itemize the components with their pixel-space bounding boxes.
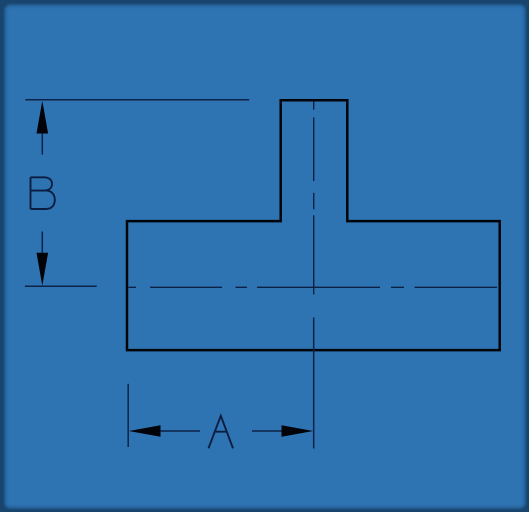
- dimension B top extension line: [25, 99, 249, 101]
- label B: [31, 177, 55, 209]
- dimension A right extension line (from centerline): [313, 318, 315, 449]
- vertical centerline (dash-dot): [313, 101, 315, 294]
- tee fitting outline: [127, 100, 500, 350]
- horizontal centerline (dash-dot): [129, 286, 498, 288]
- dimension B line (vertical, broken for label): [41, 133, 43, 253]
- dimension B arrowhead up: [37, 101, 49, 134]
- dimension B arrowhead down: [37, 253, 49, 286]
- dimension B bottom extension line: [25, 285, 97, 287]
- dimension A arrowhead left: [129, 425, 161, 437]
- dimension A arrowhead right: [282, 425, 314, 437]
- label A: [209, 416, 234, 449]
- dimension A line (horizontal, broken for label): [160, 430, 282, 432]
- dimension A left extension line: [127, 384, 129, 447]
